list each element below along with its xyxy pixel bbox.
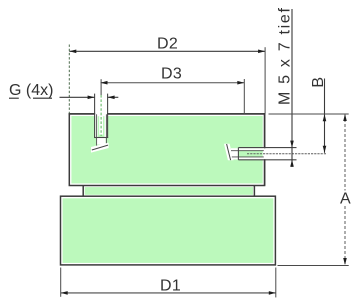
side hole tip white halo <box>224 144 234 161</box>
svg-text:G (4x): G (4x) <box>9 82 53 99</box>
tapped hole drill tip break line <box>92 145 108 150</box>
A top extension line <box>269 113 349 115</box>
M5 diameter arrows <box>290 141 294 167</box>
tapped hole centerline <box>100 79 102 136</box>
side hole thread major lines + diameter extension lines <box>238 148 296 160</box>
D1 right extension line <box>275 268 277 298</box>
side hole centerline <box>247 153 326 155</box>
tapped hole (top, vertical) white thread annulus + center channel <box>95 113 107 145</box>
A dimension line (dashed, with text gap) <box>343 114 347 265</box>
D3 right extension line <box>243 79 245 114</box>
side hole drill tip break line <box>227 144 231 160</box>
tapped hole tip white halo <box>91 143 109 153</box>
neck cylinder (small diameter section between flanges) <box>83 185 254 196</box>
side hole drill lines <box>231 151 264 157</box>
D3 dimension line (dashed) <box>101 81 245 85</box>
svg-text:D3: D3 <box>161 65 182 82</box>
top cylinder block <box>69 114 264 186</box>
D2 dimension line <box>69 50 265 54</box>
svg-text:D2: D2 <box>157 36 178 53</box>
D1 dimension line <box>61 291 276 295</box>
D2 left extension line (dashed) <box>68 45 70 114</box>
side tapped hole (right, horizontal) white thread annulus <box>231 148 266 159</box>
right face line re-draw with hole gap <box>264 113 266 185</box>
bottom cylinder block <box>61 196 276 265</box>
G dimension line with outside arrows <box>60 96 119 100</box>
svg-text:A: A <box>340 191 351 208</box>
tapped hole drill lines <box>97 114 107 146</box>
svg-text:M 5 x 7 tief: M 5 x 7 tief <box>276 6 293 105</box>
B dimension line <box>323 79 327 153</box>
M5 leader / underline vertical line <box>291 9 293 167</box>
svg-text:D1: D1 <box>160 277 181 294</box>
tapped hole thread major lines + G extension lines above face <box>94 94 108 138</box>
G label underline segments <box>9 97 52 99</box>
svg-text:B: B <box>310 77 327 88</box>
D1 left extension line <box>60 268 62 297</box>
top face line re-draw with hole gap <box>69 113 266 115</box>
A bottom extension line <box>278 265 349 267</box>
D2 right extension line <box>264 47 266 113</box>
